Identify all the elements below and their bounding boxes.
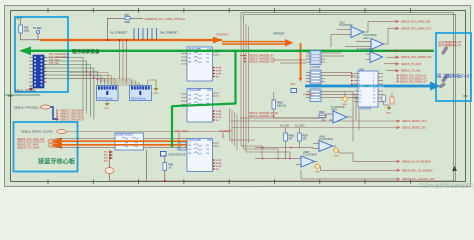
- svg-text:4 5 1 2 3 1 0 1 2: 4 5 1 2 3 1 0 1 2: [236, 185, 258, 189]
- ground below comb A: [104, 101, 110, 111]
- net labels SEBUS_HANDER rows mid: [249, 55, 275, 64]
- svg-text:MCU_BUF: MCU_BUF: [175, 129, 188, 133]
- net label ports SEBUS_RESET right: [402, 120, 427, 130]
- arrow up on right vertical: [452, 166, 457, 171]
- border tick marks sides: [8, 95, 468, 97]
- resistor R907 4K7: [298, 133, 309, 148]
- svg-text:R910: R910: [319, 112, 325, 114]
- svg-text:SEBUS_SWDIO_BUS: SEBUS_SWDIO_BUS: [358, 84, 384, 88]
- net label ports right column top: [401, 21, 432, 31]
- op-amp U22A: [363, 28, 396, 49]
- svg-text:接 主控制板F407: 接 主控制板F407: [437, 73, 472, 80]
- svg-text:GDR: GDR: [125, 21, 131, 24]
- pin name labels red inside box1: [49, 53, 69, 65]
- wire feedback top-left of op-amps: [331, 30, 367, 48]
- svg-text:SW_JTARGET: SW_JTARGET: [160, 31, 178, 35]
- svg-text:GND: GND: [342, 104, 347, 106]
- junction dots magenta on bundle: [86, 71, 102, 82]
- power flag VDD above R99: [17, 17, 23, 26]
- net labels SEBUS_HANDER_IN_AN lower: [249, 112, 278, 118]
- border tick marks bottom: [48, 179, 410, 184]
- svg-text:TLV2372IDR: TLV2372IDR: [357, 48, 371, 51]
- svg-text:4K7: 4K7: [303, 139, 308, 141]
- TVS diamond near U904 top: [342, 92, 348, 106]
- TVS diamond at U90B output: [315, 162, 321, 174]
- ground red below connector: [29, 86, 34, 91]
- svg-text:SEBUS_TIS_OUT: SEBUS_TIS_OUT: [401, 63, 422, 66]
- svg-text:GND: GND: [315, 172, 320, 174]
- diode D2 on orange pair: [178, 142, 186, 150]
- net labels in box2 rows: [17, 138, 45, 150]
- svg-text:GND: GND: [153, 93, 158, 95]
- resistor R68 1k: [163, 156, 174, 181]
- svg-text:接主控制板SWD_OT: 接主控制板SWD_OT: [439, 40, 463, 44]
- wire bottom long horizontal y181: [110, 180, 456, 182]
- wire top routing bus to right edge: [241, 13, 456, 181]
- sheet background: [0, 0, 474, 190]
- wire bottom op-amp input line: [255, 148, 313, 160]
- ground olive right of comb B: [152, 80, 159, 95]
- svg-text:VTARGET: VTARGET: [219, 129, 232, 133]
- svg-text:100k 1%: 100k 1%: [277, 106, 286, 108]
- net label MCU_BUF: [175, 129, 188, 141]
- svg-text:SEBUS_BVL_OV_ENABLE: SEBUS_BVL_OV_ENABLE: [402, 169, 433, 172]
- resistor network U20A 74LVC245: [181, 47, 219, 81]
- net label ports tight rows near box3: [400, 75, 428, 83]
- svg-text:U22A: U22A: [363, 37, 369, 40]
- svg-text:SEBUS_THS_CHRG_INS: SEBUS_THS_CHRG_INS: [401, 21, 431, 24]
- svg-text:CSDN @树莓派的创客C+: CSDN @树莓派的创客C+: [419, 183, 474, 190]
- test point TP circle: [33, 27, 42, 40]
- svg-text:SEBUS_THS_CHGDI_IN: SEBUS_THS_CHGDI_IN: [400, 75, 426, 77]
- net labels A5_OMG pair: [280, 125, 305, 128]
- red pin arrows right of U20C: [216, 160, 219, 171]
- svg-text:R909: R909: [277, 103, 283, 105]
- op-amp U23B: [357, 48, 383, 62]
- wire thin rows box2 to U20C: [55, 138, 187, 140]
- svg-text:程序烧录设备: 程序烧录设备: [72, 48, 100, 55]
- svg-text:74LV: 74LV: [290, 83, 296, 86]
- resistor R908 4K7: [284, 133, 295, 158]
- blue box 1 programmer connector region: [15, 17, 68, 92]
- svg-text:R908: R908: [289, 136, 295, 138]
- border tick marks top: [48, 8, 410, 13]
- TVS diamond at U90A output: [333, 146, 340, 158]
- svg-text:A5_OMG: A5_OMG: [295, 125, 305, 128]
- svg-text:SEBUS_TTL_GVPK: SEBUS_TTL_GVPK: [17, 147, 40, 150]
- red pin arrows right of U20B: [216, 111, 219, 122]
- svg-text:4K7: 4K7: [289, 139, 294, 141]
- arrow green big left: [19, 47, 31, 56]
- wire green diagonal: [172, 104, 236, 107]
- svg-text:GND8 SW/GLUE: GND8 SW/GLUE: [168, 155, 186, 157]
- wire teal stub at left y95: [5, 94, 40, 96]
- svg-text:R907: R907: [303, 136, 309, 138]
- svg-text:74LVC245B: 74LVC245B: [188, 89, 201, 92]
- svg-text:74LVC245B: 74LVC245B: [188, 139, 201, 142]
- pin arrows red right of connector J1: [45, 57, 47, 83]
- wire orange double segment: [222, 41, 286, 43]
- wire green vertical x236: [234, 51, 236, 105]
- svg-text:SEBUS_THS_CHRG_OUT: SEBUS_THS_CHRG_OUT: [401, 27, 432, 30]
- wire green main programming bus: [29, 50, 434, 52]
- wire orange VTARGET main top: [40, 39, 222, 41]
- resistor network U20C 74LVC245: [187, 139, 219, 172]
- svg-text:SEBUS_THS_SWDIO_OT: SEBUS_THS_SWDIO_OT: [400, 81, 428, 83]
- svg-text:SEBUS_IN_OV_ENABLE: SEBUS_IN_OV_ENABLE: [402, 161, 431, 164]
- red pin arrows right of U20A: [216, 68, 219, 79]
- wire green vertical x172 down: [171, 106, 173, 148]
- svg-text:TLV2372IDR: TLV2372IDR: [303, 153, 317, 156]
- svg-text:GND: GND: [104, 108, 109, 110]
- wire long horizontal reset lines to right ports: [66, 121, 397, 132]
- wire thin connections around resistor packs: [240, 51, 359, 141]
- wire drops from orange to combs: [120, 41, 127, 83]
- red pin arrows left of J20: [351, 73, 354, 86]
- comb connector B resistor header: [130, 86, 152, 101]
- net label SEBUS_TRACKED_IN with oval: [14, 105, 58, 119]
- comb connector A resistor header: [97, 86, 119, 101]
- svg-text:74LVC540: 74LVC540: [360, 108, 372, 111]
- svg-text:SEBUS_THS_SWDIO_OUT: SEBUS_THS_SWDIO_OUT: [401, 50, 433, 53]
- resistor network U20B 74LVC245: [181, 89, 219, 123]
- diode D20 right of J20: [390, 93, 394, 104]
- svg-text:GND: GND: [334, 156, 339, 158]
- wire bundle from connector J1 to right: [44, 58, 105, 120]
- arrow orange mid port: [213, 37, 222, 44]
- svg-text:SEBUS_TRACKED_IN: SEBUS_TRACKED_IN: [14, 106, 43, 110]
- svg-text:TMS PCDumb: TMS PCDumb: [131, 99, 147, 101]
- wire horizontal into U904 region: [240, 114, 326, 118]
- svg-text:VTARGET: VTARGET: [216, 33, 229, 37]
- arrow orange into box2 row2: [48, 142, 62, 149]
- svg-text:U24: U24: [321, 121, 326, 123]
- svg-text:SEBUS_RESET_LOOPS: SEBUS_RESET_LOOPS: [21, 130, 53, 134]
- svg-text:VTMGNT: VTMGNT: [273, 32, 285, 36]
- wire nested verticals center-left dropping to bottom op-amps: [230, 20, 291, 158]
- resistor R95 right of J20: [382, 95, 389, 107]
- ferrite bead FB1: [108, 14, 144, 40]
- resistor R910 horizontal: [319, 112, 326, 123]
- svg-text:接主控制板SWD_IN: 接主控制板SWD_IN: [439, 43, 461, 47]
- op-amp U90A bottom: [313, 135, 333, 151]
- svg-text:100k: 100k: [24, 30, 30, 33]
- svg-text:SEBUS_HANDER_ON: SEBUS_HANDER_ON: [249, 115, 275, 118]
- small blue box under wire start: [291, 89, 297, 93]
- net label ports right column mid: [401, 50, 433, 73]
- op-amp U904: [326, 106, 353, 123]
- red pin arrows left of U30: [104, 151, 109, 163]
- connector J20 mid right: [354, 68, 383, 110]
- red label rows inside box3 top: [439, 40, 463, 47]
- resistor pack RP3: [306, 89, 325, 102]
- net label SEBUS_RESET_LOOPS with oval in box2: [21, 130, 66, 134]
- wire op-amp outputs to right ports bottom: [301, 150, 396, 179]
- small component U31 with label: [161, 152, 187, 157]
- arrow orange into box2 row1: [48, 138, 62, 145]
- arrow orange second port: [285, 39, 294, 47]
- resistor R909 100k vertical: [272, 92, 286, 118]
- op-amp U90B bottom: [296, 151, 317, 167]
- wire thick blue SWD bus overlay: [305, 85, 432, 88]
- blue box 3 main control board region: [436, 33, 471, 101]
- svg-text:IN_JTARGET: IN_JTARGET: [111, 31, 128, 35]
- svg-text:TP-DEC: TP-DEC: [33, 27, 42, 30]
- resistor network U30 small: [115, 133, 144, 150]
- svg-text:TMS PCDumb: TMS PCDumb: [98, 99, 114, 101]
- svg-text:SEBUS_BCL_EQUATE_ARC: SEBUS_BCL_EQUATE_ARC: [402, 178, 435, 181]
- svg-text:VTARGET: VTARGET: [303, 94, 315, 97]
- svg-text:4.7k RP9: 4.7k RP9: [310, 66, 321, 69]
- svg-text:SEBUS_TRACKED: SEBUS_TRACKED: [15, 90, 36, 93]
- wire resistor to orange net: [21, 33, 41, 40]
- junction dots on bottom input line: [262, 147, 292, 160]
- wire thick blue SWD bus: [305, 85, 432, 88]
- resistor R99 100k in box1: [19, 25, 30, 33]
- svg-text:LM358 TLV2372: LM358 TLV2372: [116, 135, 133, 137]
- connector J1 2x10 header in box1: [29, 55, 44, 88]
- junction on bottom wire: [164, 180, 166, 182]
- bead oval bottom left: [105, 150, 114, 181]
- svg-text:TLV2372IDR: TLV2372IDR: [319, 138, 333, 141]
- wire bundle horizontals feeding combs: [68, 73, 152, 86]
- svg-text:U20: U20: [207, 139, 212, 142]
- blue box 2 bluetooth core board region: [14, 122, 78, 172]
- svg-text:SEBUS_RESET_OUT: SEBUS_RESET_OUT: [402, 120, 427, 123]
- wire orange vertical drop: [300, 43, 302, 79]
- svg-text:QSEBUS_IGT_CM62_ATTACH: QSEBUS_IGT_CM62_ATTACH: [145, 17, 186, 21]
- svg-text:VDD: VDD: [17, 17, 23, 21]
- svg-text:SEBUS_RESET_INS: SEBUS_RESET_INS: [402, 127, 426, 130]
- svg-text:GND: GND: [386, 113, 391, 115]
- svg-text:SEBUS_HANDER_AN: SEBUS_HANDER_AN: [249, 61, 274, 64]
- svg-text:接蓝牙核心板: 接蓝牙核心板: [38, 158, 76, 166]
- wire orange pair to resistor network U20C: [62, 140, 187, 142]
- arrow blue into box3: [430, 82, 441, 91]
- net label VTARGET mid: [219, 129, 232, 138]
- net labels SEBUS_TRACKED4-7 cluster: [60, 109, 85, 122]
- net label cluster vertical texts above orange wire: [134, 28, 157, 40]
- svg-text:SEBUS_CHG_SWDIO_INS: SEBUS_CHG_SWDIO_INS: [401, 56, 432, 59]
- resistor pack RP2: [306, 70, 325, 84]
- wire from U20C bottom down: [146, 150, 148, 181]
- svg-text:SEBUS_TIS_INS: SEBUS_TIS_INS: [401, 70, 421, 73]
- resistor pack RP1: [306, 51, 325, 65]
- svg-text:SEBUS_TRACKED7: SEBUS_TRACKED7: [60, 118, 85, 122]
- ground olive below J20: [386, 107, 392, 115]
- svg-text:U904: U904: [331, 108, 337, 111]
- svg-text:A5_OMG: A5_OMG: [280, 125, 290, 128]
- svg-text:U20: U20: [207, 89, 212, 92]
- wire stubs from ports to left: [384, 51, 396, 71]
- op-amp U21A: [339, 22, 396, 38]
- grey annotation dashes in box3: [438, 46, 449, 89]
- svg-text:SEBUS_THS_SWCLK_IN: SEBUS_THS_SWCLK_IN: [400, 78, 427, 80]
- net label ports bottom right: [402, 161, 435, 182]
